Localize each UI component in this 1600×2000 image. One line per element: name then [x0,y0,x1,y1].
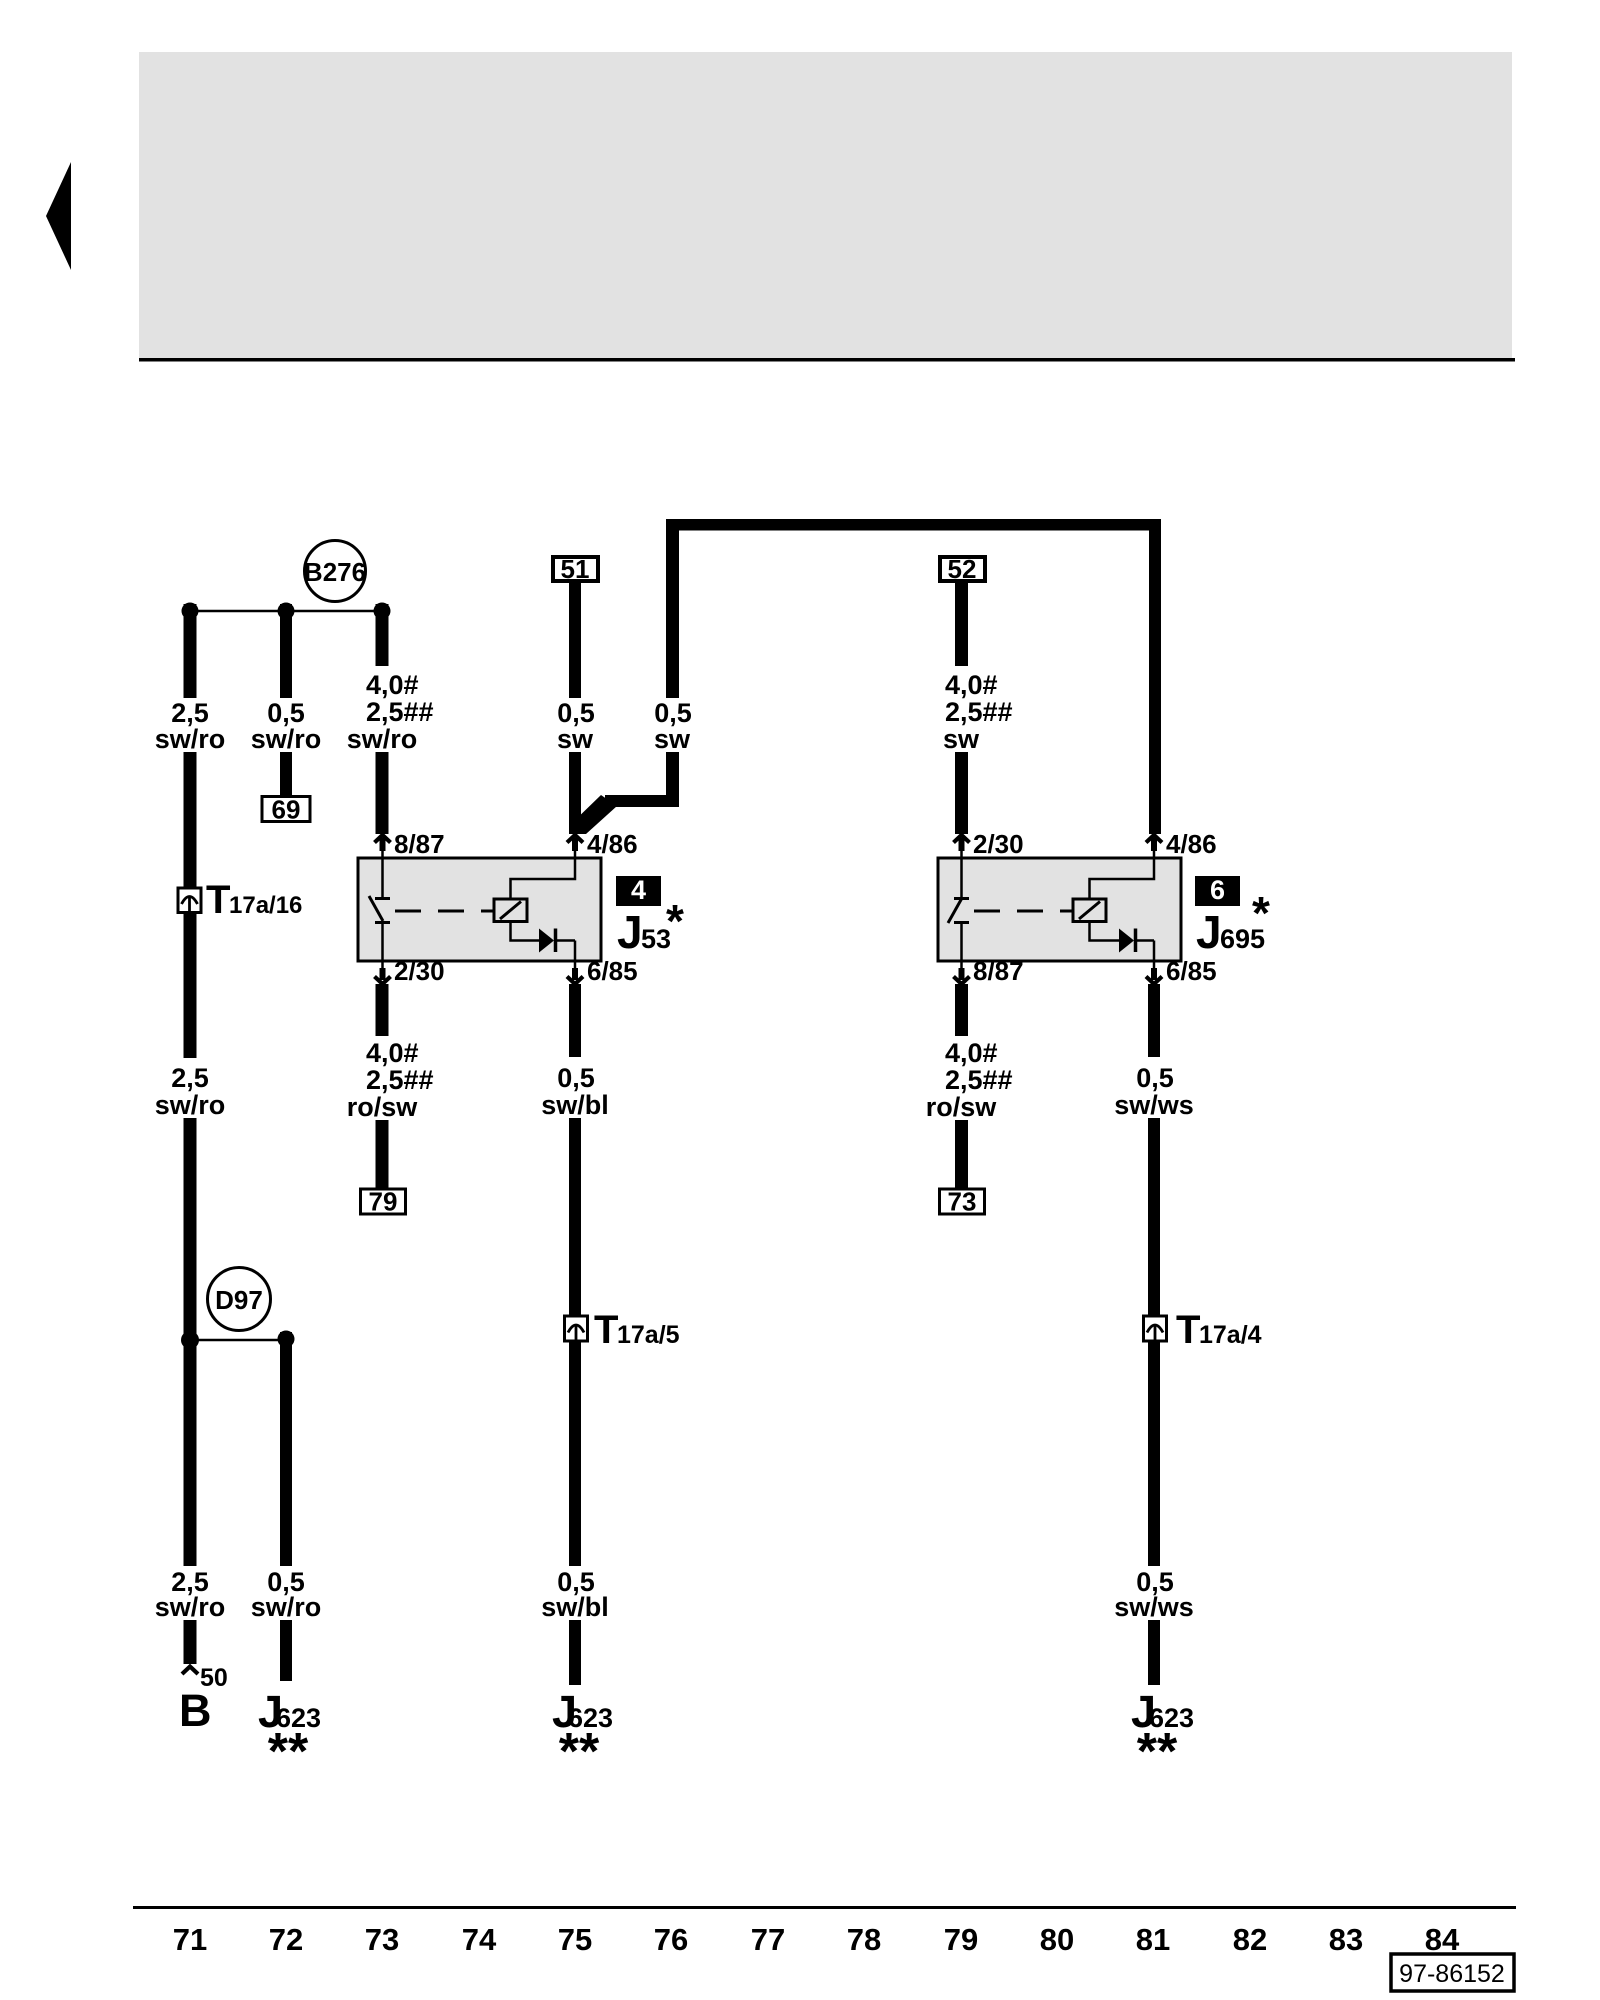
relay J695 designation tag 6 [1195,875,1240,906]
svg-text:**: ** [268,1723,309,1781]
wire 4,0 ro/sw col 73 below relay [376,984,389,1036]
svg-text:17a/5: 17a/5 [617,1321,680,1349]
relay J53 diode [539,929,575,961]
junction dot col 73 [374,603,391,620]
wire 0,5 sw/bl col 75 below relay [569,984,581,1057]
diagram number plate 97-86152 [1391,1954,1514,1991]
terminal box 69 [262,795,310,825]
svg-text:0,5: 0,5 [557,1063,595,1093]
junction dot col 71 [182,603,199,620]
value label 0,5 sw/bl col 75 bottom [541,1567,609,1622]
svg-text:**: ** [1137,1723,1178,1781]
label J623 col 81 [1131,1686,1194,1781]
relay J695 pin 2/30 connector [954,829,1024,859]
connector symbol T17a/16 [178,878,302,922]
svg-text:8/87: 8/87 [973,956,1024,986]
wire 0,5 sw/ws col 81 below T17a/4 [1148,1341,1160,1566]
svg-text:73: 73 [948,1187,977,1217]
wire 4,0 sw col 79 from terminal 52 [955,582,968,666]
value label 2,5 sw/ro top col 71 [155,698,226,754]
wire 0,5 sw col 76 vertical from top rail [666,519,679,698]
terminal 50 connector [182,1664,228,1692]
svg-text:80: 80 [1040,1922,1074,1957]
svg-text:4,0#: 4,0# [366,1038,419,1068]
svg-text:2,5: 2,5 [171,1063,209,1093]
connector symbol T17a/5 [565,1308,680,1352]
svg-text:*: * [1252,887,1270,939]
relay J695 diode [1119,929,1154,961]
relay J53 pin 8/87 connector [375,829,445,859]
svg-text:83: 83 [1329,1922,1363,1957]
svg-text:78: 78 [847,1922,881,1957]
svg-text:6/85: 6/85 [1166,956,1217,986]
svg-text:ro/sw: ro/sw [347,1092,419,1122]
relay J53 label J53* [617,895,684,958]
svg-text:2,5##: 2,5## [945,697,1013,727]
svg-text:73: 73 [365,1922,399,1957]
terminal box 52 [940,554,985,584]
svg-text:D97: D97 [215,1285,263,1315]
wire 2,5 sw/ro col 71 upper [184,604,197,698]
value label 0,5 sw/ws col 81 bottom [1114,1567,1194,1622]
connector symbol T17a/4 [1144,1308,1262,1352]
connection circle B276 [304,541,366,602]
relay J695 pin 4/86 connector [1146,829,1217,859]
label J623 col 72 [258,1686,321,1781]
svg-text:sw: sw [557,724,594,754]
svg-text:T: T [1176,1308,1200,1352]
svg-text:72: 72 [269,1922,303,1957]
wire vertical col 81 from top rail to relay J695 pin 4/86 [1149,519,1161,834]
svg-text:69: 69 [272,795,301,825]
wire 0,5 sw/ro col 72 end [280,1620,292,1681]
wire 4,0 ro/sw col 79 to terminal 73 [955,1120,968,1188]
terminal box 51 [553,554,598,584]
value label 0,5 sw/ws col 81 [1114,1063,1194,1120]
svg-text:sw/ws: sw/ws [1114,1090,1194,1120]
relay J695 coil bottom wire [1090,921,1120,941]
relay J53 designation tag 4 [616,875,661,906]
svg-text:sw/ws: sw/ws [1114,1592,1194,1622]
svg-text:2,5##: 2,5## [945,1065,1013,1095]
svg-text:76: 76 [654,1922,688,1957]
relay J695 [938,858,1181,961]
grid numbers 71-84 [173,1922,1460,1957]
relay J53 pin 4/86 connector [567,829,638,859]
wire 2,5 sw/ro col 71 end [184,1620,197,1664]
svg-text:74: 74 [462,1922,497,1957]
wire 4,0 sw col 79 to relay pin 2/30 [955,752,968,834]
svg-text:sw: sw [943,724,980,754]
junction dot D97 right [278,1331,295,1348]
svg-text:75: 75 [558,1922,592,1957]
relay J695 coil [1073,899,1106,922]
svg-text:81: 81 [1136,1922,1170,1957]
node B276 horizontal link wire [190,610,382,613]
wire 4,0 sw/ro col 73 upper [376,604,389,666]
wire 0,5 sw/ro col 72 lower segment [280,1332,292,1566]
relay J53 switch [369,859,390,960]
terminal box 79 [361,1187,406,1217]
value label 0,5 sw col 75 [557,698,595,754]
value label 4,0# 2,5## sw col 79 [943,670,1013,754]
svg-text:2,5##: 2,5## [366,697,434,727]
svg-text:84: 84 [1425,1922,1460,1957]
relay J695 pin 6/85 connector [1146,956,1217,986]
svg-text:B: B [179,1685,212,1736]
svg-text:*: * [666,895,684,947]
wire 4,0 sw/ro col 73 to relay pin 8/87 [376,752,389,834]
svg-text:82: 82 [1233,1922,1267,1957]
value label 4,0# 2,5## ro/sw col 73 [347,1038,434,1122]
svg-text:79: 79 [944,1922,978,1957]
wire 2,5 sw/ro col 71 long segment [184,1118,197,1566]
svg-text:77: 77 [751,1922,785,1957]
relay J53 coil top wire to pin 4/86 [511,859,576,899]
wire bus horizontal top rail [666,519,1161,531]
connection circle D97 [208,1268,271,1331]
svg-text:J: J [617,906,643,958]
wire 0,5 sw/ws col 81 below relay [1148,984,1160,1057]
relay J695 actuating dashed link [974,910,1076,913]
svg-text:2,5##: 2,5## [366,1065,434,1095]
header band [139,52,1515,362]
wire 0,5 sw/ws col 81 end [1148,1620,1160,1685]
svg-text:17a/16: 17a/16 [229,892,302,919]
value label 4,0# 2,5## ro/sw col 79 [926,1038,1013,1122]
wire 0,5 sw/bl col 75 long segment [569,1118,581,1315]
svg-text:sw/ro: sw/ro [251,1592,322,1622]
svg-text:2/30: 2/30 [973,829,1024,859]
svg-text:T: T [594,1308,618,1352]
relay J53 coil [494,899,527,922]
wire 2,5 sw/ro col 71 mid [184,752,197,1058]
relay J53 pin 6/85 connector [567,956,638,986]
svg-text:sw/ro: sw/ro [251,724,322,754]
wire 0,5 sw/bl col 75 end [569,1620,581,1685]
value label 0,5 sw/ro col 72 bottom [251,1567,322,1622]
value label 0,5 sw/bl col 75 [541,1063,609,1120]
junction dot D97 left [181,1331,199,1349]
wire 2,5 sw/ro col 71 second label [155,1063,226,1120]
svg-text:4/86: 4/86 [1166,829,1217,859]
svg-text:T: T [206,878,230,922]
wire 0,5 sw/bl col 75 below T17a/5 [569,1341,581,1566]
wire 0,5 sw col 75 to relay pin 4/86 [569,752,581,834]
wire jog bar joining col 76 to pin 4/86 [605,795,679,807]
svg-text:2/30: 2/30 [394,956,445,986]
wire 0,5 sw col 76 lower segment [666,752,679,807]
svg-text:sw/ro: sw/ro [155,724,226,754]
svg-text:4,0#: 4,0# [366,670,419,700]
relay J695 label J695* [1196,887,1270,958]
svg-text:97-86152: 97-86152 [1399,1960,1505,1988]
wire diagonal into pin 4/86 [569,795,617,834]
svg-text:4,0#: 4,0# [945,1038,998,1068]
relay J53 coil bottom wire [511,921,540,941]
wire 0,5 sw/ro col 72 upper [280,604,292,698]
svg-text:17a/4: 17a/4 [1199,1321,1262,1349]
svg-text:52: 52 [948,554,977,584]
svg-text:4/86: 4/86 [587,829,638,859]
svg-text:ro/sw: ro/sw [926,1092,998,1122]
wire 0,5 sw/ws col 81 long segment [1148,1118,1160,1315]
svg-text:8/87: 8/87 [394,829,445,859]
svg-text:sw/ro: sw/ro [347,724,418,754]
bottom grid rail [133,1906,1516,1909]
svg-text:sw/ro: sw/ro [155,1592,226,1622]
svg-text:0,5: 0,5 [1136,1063,1174,1093]
wire 4,0 ro/sw col 73 to terminal 79 [376,1120,389,1188]
page arrow marker (left) [46,162,71,270]
svg-text:sw: sw [654,724,691,754]
wire 0,5 sw/ro col 72 to terminal 69 [280,752,292,796]
svg-text:51: 51 [561,554,590,584]
relay J53 actuating dashed link [395,910,497,913]
svg-text:79: 79 [369,1187,398,1217]
svg-text:B276: B276 [304,557,366,587]
value label 0,5 sw col 76 [654,698,692,754]
relay J695 switch [948,859,969,960]
svg-text:J: J [1196,906,1222,958]
terminal box 73 [940,1187,985,1217]
relay J53 [358,858,601,961]
node D97 horizontal link wire [190,1339,286,1342]
svg-text:6/85: 6/85 [587,956,638,986]
wire 4,0 ro/sw col 79 below relay [955,984,968,1036]
value label 4,0# 2,5## sw/ro col 73 [347,670,434,754]
wire 0,5 sw col 75 from terminal 51 [569,582,581,698]
relay J695 pin 8/87 connector [954,956,1024,986]
svg-text:sw/ro: sw/ro [155,1090,226,1120]
relay J53 pin 2/30 connector [375,956,445,986]
svg-text:71: 71 [173,1922,207,1957]
value label 0,5 sw/ro top col 72 [251,698,322,754]
svg-text:4,0#: 4,0# [945,670,998,700]
svg-text:4: 4 [631,875,646,905]
svg-text:sw/bl: sw/bl [541,1090,609,1120]
junction dot col 72 [278,603,295,620]
value label 2,5 sw/ro col 71 bottom [155,1567,226,1622]
svg-text:**: ** [559,1723,600,1781]
relay J695 coil top wire to pin 4/86 [1090,859,1155,899]
svg-text:sw/bl: sw/bl [541,1592,609,1622]
label J623 col 75 [552,1686,613,1781]
svg-text:6: 6 [1210,875,1225,905]
